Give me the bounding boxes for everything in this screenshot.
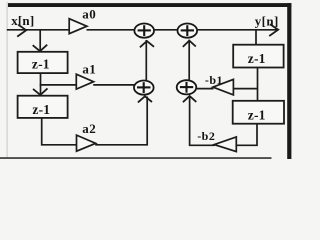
delay D4 (233, 101, 284, 124)
svg-text:a1: a1 (82, 62, 96, 77)
frame bottom border (0, 157, 272, 159)
wire branch down to delay D3 (255, 30, 257, 46)
svg-text:x[n]: x[n] (11, 13, 34, 28)
arrowhead into S2 from S4 (183, 41, 196, 47)
wire S4 to S2 (188, 40, 190, 80)
output arrowhead (269, 24, 278, 36)
frame top border (8, 3, 291, 7)
wire -b1 to summer S4 (197, 88, 214, 90)
wire a1 tap (40, 84, 77, 86)
amplifier a0 (69, 19, 87, 34)
summer S2 (178, 24, 198, 38)
arrowhead into S4 from below (183, 96, 196, 102)
wire D1 to D2 (40, 73, 42, 95)
wire input x[n] (7, 29, 70, 31)
summer S1 (134, 24, 154, 38)
wire S1 to S2 (155, 29, 177, 31)
amplifier -b1 (213, 79, 234, 95)
wire D3 to D4 (257, 68, 259, 102)
wire a2 to S3 (95, 97, 147, 145)
wire D4 to -b2 (236, 124, 257, 146)
arrowhead into S3 from below (138, 96, 152, 102)
wire a0 to summer S1 (87, 29, 135, 31)
wire a1 to summer S3 (93, 84, 134, 86)
wire D2 to a2 (42, 118, 77, 145)
wire -b2 to S4 (190, 96, 215, 145)
wire tap to -b1 (233, 88, 257, 90)
svg-text:a2: a2 (82, 121, 96, 136)
svg-text:z-1: z-1 (248, 51, 266, 66)
input arrowhead (17, 25, 26, 37)
svg-text:-b1: -b1 (205, 73, 223, 87)
wire S2 to y[n] (198, 29, 278, 31)
svg-text:z-1: z-1 (248, 107, 266, 122)
frame left border (7, 2, 8, 159)
delay D3 (233, 45, 283, 68)
frame right border (287, 3, 291, 159)
amplifier -b2 (214, 137, 236, 152)
arrowhead into S1 from S3 (140, 41, 154, 47)
svg-text:a0: a0 (82, 7, 96, 22)
summer S3 (134, 81, 154, 95)
arrowhead into D2 (33, 88, 48, 95)
wire branch down to delay D1 (39, 30, 41, 52)
svg-text:y[n]: y[n] (255, 13, 279, 28)
svg-text:z-1: z-1 (32, 102, 50, 117)
summer S4 (177, 80, 197, 94)
delay D1 (18, 52, 68, 73)
wire S3 to S1 (145, 40, 147, 80)
svg-text:z-1: z-1 (32, 56, 50, 71)
amplifier a1 (76, 74, 93, 89)
delay D2 (18, 96, 68, 118)
arrowhead into D1 (33, 45, 48, 52)
svg-text:-b2: -b2 (197, 129, 215, 143)
amplifier a2 (77, 135, 96, 151)
